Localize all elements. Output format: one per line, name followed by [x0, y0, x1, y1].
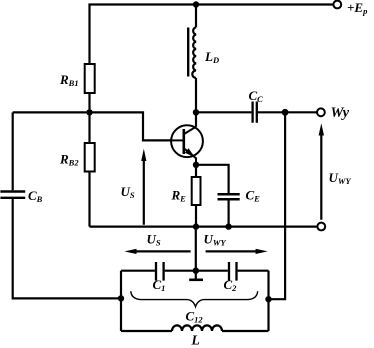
wire RE bottom lead [195, 205, 197, 227]
transistor Q1 circle [171, 125, 203, 157]
transistor Q1 base bar [183, 129, 186, 154]
wire RB2 leads [88, 112, 90, 226]
junction dot collector node [193, 109, 199, 115]
wire tank bottom left segment [121, 330, 172, 332]
wire CB bottom lead to tank [13, 199, 121, 298]
inductor LD coil [192, 27, 196, 78]
wire top supply rail with RB1 top lead [90, 5, 334, 65]
wire LD branch top lead [195, 5, 197, 28]
terminal Wy bottom [317, 223, 325, 231]
capacitor CC plates [253, 102, 257, 123]
wire emitter node to CE [196, 165, 229, 193]
wire CC to Wy terminal [258, 111, 317, 113]
wire CB left branch down [12, 112, 14, 190]
arrowhead UWY vertical [319, 123, 324, 135]
resistor RB2 [85, 143, 95, 172]
wire RB1 to junction [88, 93, 90, 112]
transistor Q1 emitter arrowhead [185, 148, 195, 157]
capacitor C2 plates [229, 262, 237, 281]
arrow US vertical shaft [143, 159, 145, 225]
wire collector node to transistor [195, 112, 197, 127]
transistor Q1 collector stroke [184, 127, 196, 134]
arrowhead UWY horizontal [256, 249, 268, 254]
transistor Q1 emitter stroke [184, 148, 196, 164]
junction dot CE bottom rail [225, 223, 231, 229]
resistor RE [192, 177, 201, 205]
wire emitter rail down to tank centre tap [195, 227, 197, 279]
wire emitter node down to RE [195, 165, 197, 177]
svg-text:Wy: Wy [331, 105, 350, 121]
wire output node down to tank [269, 112, 286, 299]
arrow UWY horizontal shaft [206, 250, 259, 252]
brace C12 [131, 291, 258, 307]
capacitor C1 plates [156, 262, 164, 281]
inductor L coil [172, 325, 222, 331]
arrow UWY vertical shaft [320, 134, 322, 220]
wire LD to collector node [195, 78, 197, 112]
wire base network: junction to base [13, 112, 172, 140]
capacitor CE plates [218, 194, 240, 199]
svg-text:L: L [191, 333, 200, 348]
wire collector to CC [196, 111, 251, 113]
arrowhead US vertical [141, 149, 146, 161]
wire CE bottom lead [228, 201, 230, 227]
arrowhead US horizontal [124, 249, 136, 254]
resistor RB1 [85, 64, 95, 93]
junction dot tank right [265, 296, 271, 302]
wire bottom emitter rail [90, 226, 318, 228]
terminal +Ep [333, 1, 341, 9]
junction dot base node [86, 109, 92, 115]
junction dot output node after CC [282, 109, 289, 116]
junction dot RE bottom rail [193, 223, 199, 229]
inductor LD core bar [187, 28, 189, 77]
wire tank bottom right segment [222, 330, 269, 332]
transistor Q1 base lead inside [171, 139, 184, 141]
wire tank right side [267, 271, 269, 331]
junction dot top rail / LD [193, 1, 199, 7]
junction dot emitter node [193, 162, 199, 168]
junction dot tank left [118, 295, 124, 301]
wire tank left side [120, 271, 122, 331]
arrow US horizontal shaft [134, 250, 191, 252]
capacitor CB plates [0, 192, 25, 198]
terminal Wy top [317, 108, 325, 116]
centre tap T-bar [189, 278, 203, 281]
wire tank top side segments [121, 270, 269, 272]
junction dot tank centre tap [193, 268, 199, 274]
